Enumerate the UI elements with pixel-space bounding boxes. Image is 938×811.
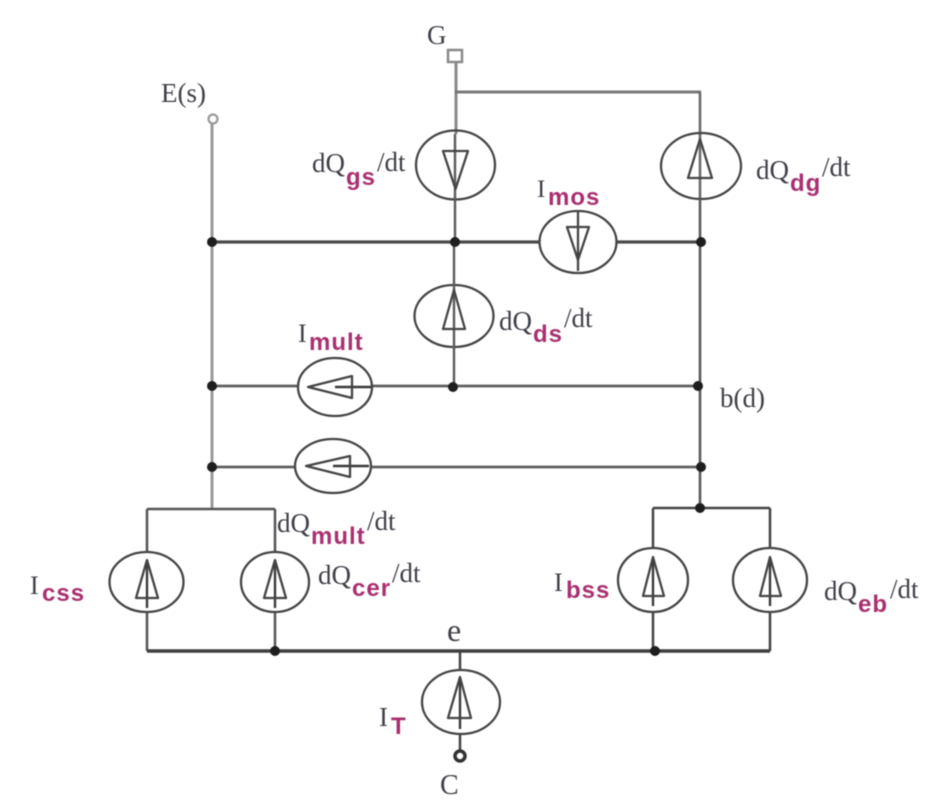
wire b(d) line right segment xyxy=(371,385,700,388)
svg-text:dQ: dQ xyxy=(318,560,352,590)
wire left bracket right vertical upper xyxy=(274,509,277,553)
wire dQgs to bus1 xyxy=(454,199,456,242)
label dQds/dt xyxy=(499,303,593,348)
label dQgs/dt xyxy=(312,147,406,191)
junction bus1-center xyxy=(450,237,460,247)
current source dQds/dt (arrow up) xyxy=(415,242,494,386)
svg-text:/dt: /dt xyxy=(822,152,851,182)
junction e-line dQcer xyxy=(270,646,280,656)
wire bus1 left segment xyxy=(212,240,540,243)
current source dQeb/dt (arrow up) xyxy=(733,548,807,612)
label Icss xyxy=(30,571,85,607)
wire left bracket left vertical lower xyxy=(146,611,149,651)
svg-text:dQ: dQ xyxy=(756,155,790,185)
svg-text:b(d): b(d) xyxy=(720,383,765,413)
wire emitter bus e xyxy=(147,649,770,653)
svg-text:E(s): E(s) xyxy=(161,78,206,108)
wire second mult line right segment xyxy=(369,466,701,469)
label dQmult/dt xyxy=(277,506,396,550)
terminal C xyxy=(455,751,465,761)
svg-text:gs: gs xyxy=(346,164,376,191)
svg-text:cer: cer xyxy=(352,575,391,602)
svg-text:mult: mult xyxy=(309,329,364,356)
junction b(d)-E rail xyxy=(207,381,217,391)
current source dQdg/dt (arrow up) on right rail xyxy=(661,92,741,199)
svg-text:/dt: /dt xyxy=(890,574,919,604)
terminal E(s) xyxy=(209,115,218,124)
junction line2-right rail xyxy=(696,462,706,472)
label dQeb/dt xyxy=(824,574,919,618)
svg-text:dQ: dQ xyxy=(499,306,533,336)
wire right bracket right vertical upper xyxy=(769,508,772,550)
svg-text:I: I xyxy=(554,568,563,597)
current source dQgs/dt (arrow down) xyxy=(416,131,495,200)
junction bus1-E rail xyxy=(207,237,217,247)
junction b(d)-center xyxy=(448,382,458,392)
svg-text:I: I xyxy=(537,176,545,203)
svg-text:I: I xyxy=(30,571,39,600)
label Imult xyxy=(298,319,364,356)
wire second mult line left segment xyxy=(212,466,297,469)
svg-text:css: css xyxy=(42,580,85,607)
svg-text:/dt: /dt xyxy=(392,558,421,588)
label dQdg/dt xyxy=(756,152,851,197)
svg-text:I: I xyxy=(379,702,388,732)
current source Ibss (arrow up) xyxy=(618,548,688,612)
svg-text:/dt: /dt xyxy=(564,303,593,333)
junction line2-E rail xyxy=(207,462,217,472)
wire left bracket top xyxy=(147,508,275,511)
junction right bracket top xyxy=(695,503,705,513)
current source dQcer/dt (arrow up) xyxy=(241,552,309,612)
wire bus1 right segment xyxy=(616,240,701,243)
wire right bracket left vertical upper xyxy=(652,508,655,550)
wire left bracket right vertical lower xyxy=(274,611,277,651)
wire right bracket top xyxy=(653,507,770,510)
label dQcer/dt xyxy=(318,558,421,602)
label Ibss xyxy=(554,568,610,604)
label IT xyxy=(379,702,407,740)
wire G terminal down to dQgs source xyxy=(455,62,458,134)
current source dQmult/dt (arrow left) on second line xyxy=(295,439,371,493)
svg-text:C: C xyxy=(440,770,459,801)
svg-text:/dt: /dt xyxy=(367,506,396,536)
current source IT (arrow up) xyxy=(422,651,500,751)
svg-text:I: I xyxy=(298,319,307,348)
svg-text:e: e xyxy=(447,612,461,648)
svg-text:T: T xyxy=(391,713,407,740)
current source Imos (arrow down) on bus1 xyxy=(540,211,617,273)
wire b(d) line left segment xyxy=(212,385,300,388)
terminal G xyxy=(448,50,462,62)
label Imos xyxy=(537,176,600,211)
svg-text:G: G xyxy=(427,20,447,50)
svg-text:dQ: dQ xyxy=(277,508,311,538)
wire right bracket left vertical lower xyxy=(652,611,655,651)
svg-text:dg: dg xyxy=(790,170,821,197)
wire top horizontal from G branch to right rail xyxy=(455,91,701,94)
svg-text:dQ: dQ xyxy=(824,576,858,606)
svg-text:dQ: dQ xyxy=(312,148,346,178)
junction b(d)-right rail xyxy=(693,381,703,391)
wire right bracket right vertical lower xyxy=(769,611,772,651)
junction bus1-right rail xyxy=(696,237,706,247)
wire E(s) vertical rail xyxy=(211,124,214,509)
svg-text:eb: eb xyxy=(858,591,888,618)
current source Imult (arrow left) on b(d) line xyxy=(298,358,372,416)
svg-text:ds: ds xyxy=(533,321,563,348)
wire left bracket left vertical upper xyxy=(146,509,149,553)
svg-text:mult: mult xyxy=(311,523,366,550)
wire right rail dQdg down to right bracket xyxy=(699,199,702,508)
junction e-line Ibss xyxy=(650,646,660,656)
svg-text:mos: mos xyxy=(548,184,600,211)
current source Icss (arrow up) xyxy=(110,552,184,612)
svg-text:/dt: /dt xyxy=(377,147,406,177)
svg-text:bss: bss xyxy=(566,577,610,604)
